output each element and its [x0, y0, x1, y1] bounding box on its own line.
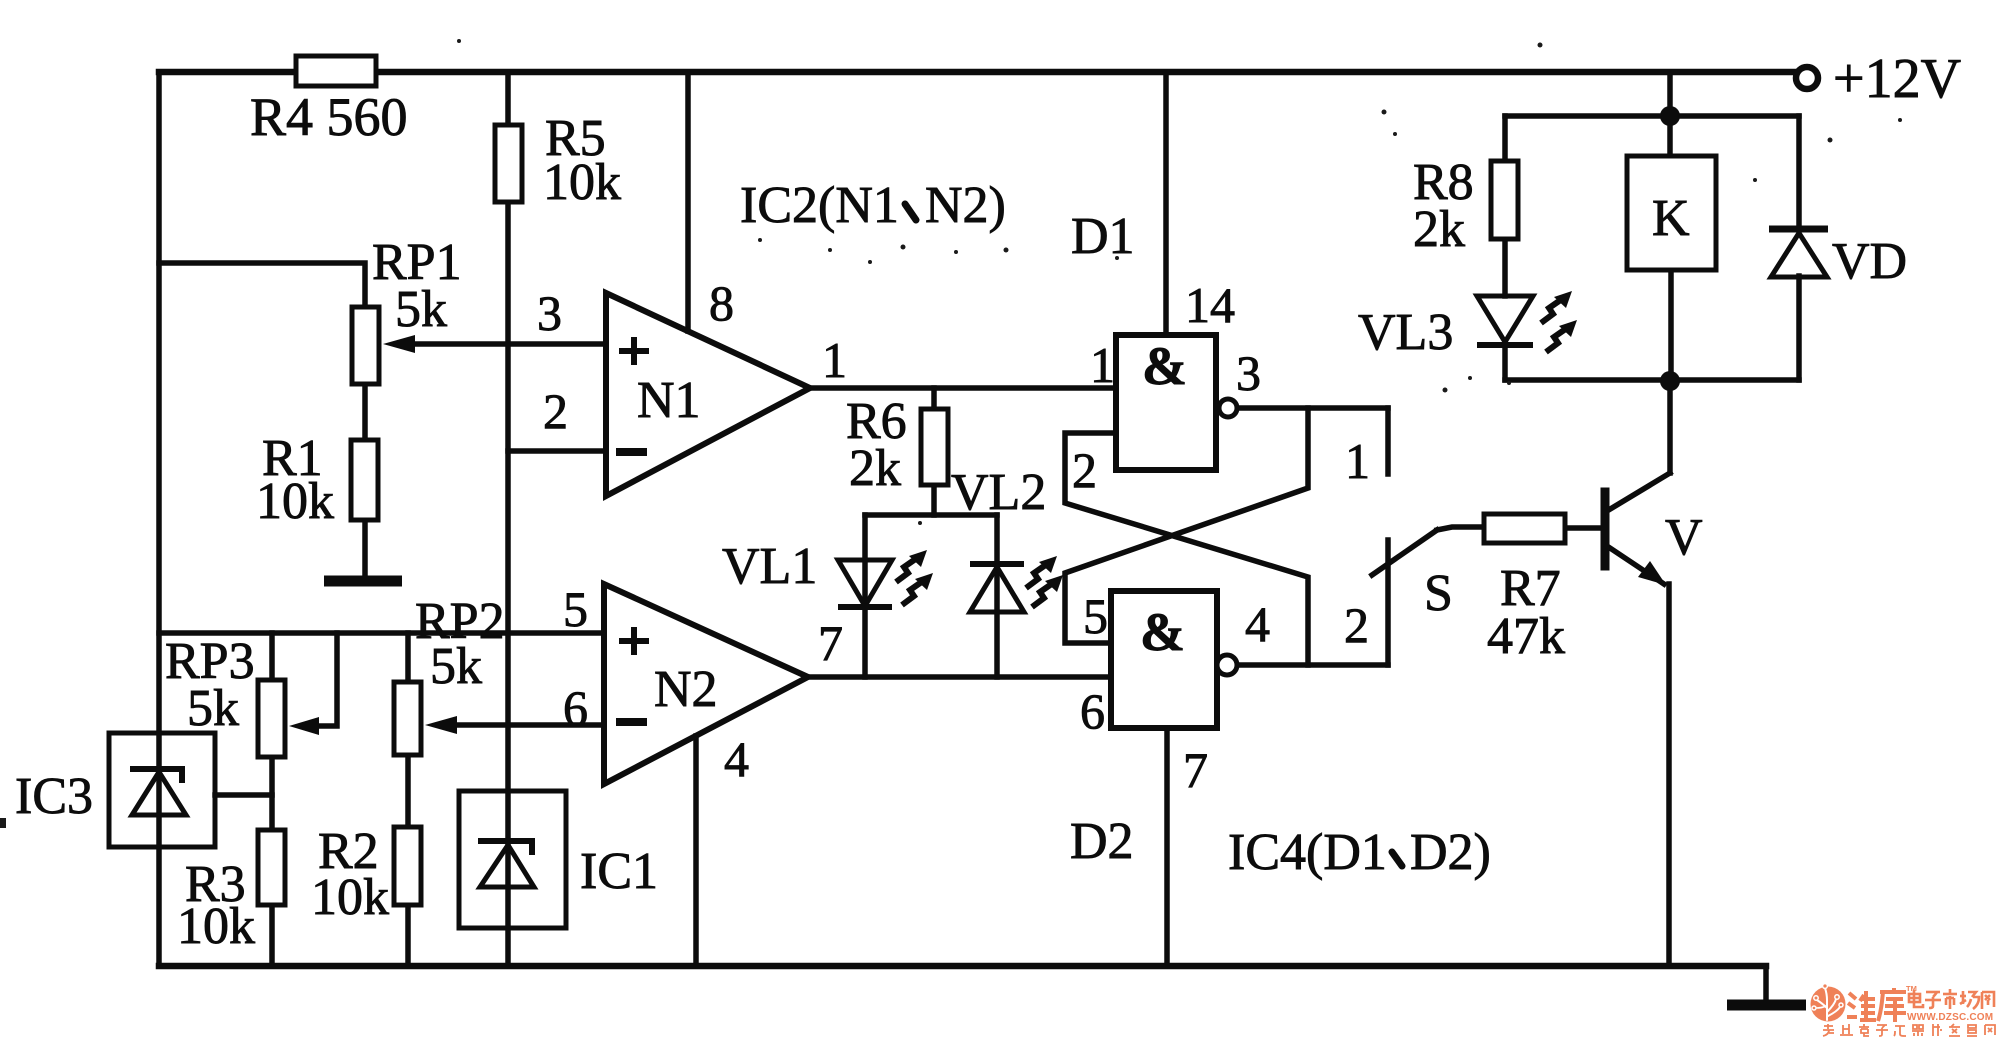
svg-text:47k: 47k — [1487, 608, 1565, 665]
svg-text:5k: 5k — [187, 680, 239, 737]
svg-text:2k: 2k — [849, 440, 901, 497]
svg-text:1: 1 — [822, 332, 847, 388]
svg-text:N2: N2 — [654, 661, 718, 718]
svg-text:IC3: IC3 — [15, 768, 93, 825]
svg-text:4: 4 — [724, 731, 749, 787]
svg-text:&: & — [1140, 602, 1185, 662]
svg-text:2k: 2k — [1413, 201, 1465, 258]
svg-text:2: 2 — [543, 383, 568, 439]
svg-text:D2: D2 — [1070, 813, 1134, 870]
svg-text:3: 3 — [1236, 345, 1261, 401]
svg-text:VL1: VL1 — [722, 538, 817, 595]
svg-text:5k: 5k — [395, 281, 447, 338]
svg-text:&: & — [1142, 336, 1187, 396]
svg-text:N2): N2) — [925, 177, 1006, 234]
svg-text:VL2: VL2 — [951, 464, 1046, 521]
svg-text:5: 5 — [1083, 588, 1108, 644]
svg-text:7: 7 — [818, 615, 843, 671]
svg-text:VD: VD — [1832, 233, 1907, 290]
svg-text:IC4(D1: IC4(D1 — [1228, 824, 1387, 881]
svg-text:4: 4 — [1245, 596, 1270, 652]
svg-text:5k: 5k — [430, 638, 482, 695]
svg-text:10k: 10k — [177, 898, 255, 955]
svg-text:IC2(N1: IC2(N1 — [740, 177, 899, 234]
svg-text:D2): D2) — [1410, 824, 1491, 881]
svg-text:2: 2 — [1344, 597, 1369, 653]
svg-text:R4 560: R4 560 — [250, 87, 408, 147]
svg-text:D1: D1 — [1071, 208, 1135, 265]
svg-text:10k: 10k — [256, 473, 334, 530]
svg-text:+12V: +12V — [1833, 48, 1961, 110]
svg-text:6: 6 — [563, 680, 588, 736]
svg-text:1: 1 — [1090, 337, 1115, 393]
svg-text:N1: N1 — [637, 372, 701, 429]
svg-text:10k: 10k — [543, 154, 621, 211]
svg-text:7: 7 — [1183, 742, 1208, 798]
svg-text:14: 14 — [1185, 277, 1235, 333]
svg-text:3: 3 — [537, 285, 562, 341]
svg-text:1: 1 — [1345, 433, 1370, 489]
svg-text:6: 6 — [1080, 683, 1105, 739]
svg-text:10k: 10k — [311, 869, 389, 926]
svg-text:5: 5 — [563, 581, 588, 637]
svg-text:S: S — [1424, 565, 1453, 622]
svg-text:TM: TM — [1906, 984, 1917, 993]
svg-text:IC1: IC1 — [580, 843, 658, 900]
svg-text:V: V — [1665, 509, 1703, 566]
svg-text:8: 8 — [709, 275, 734, 331]
svg-text:2: 2 — [1072, 442, 1097, 498]
svg-text:VL3: VL3 — [1358, 304, 1453, 361]
svg-text:WWW.DZSC.COM: WWW.DZSC.COM — [1907, 1012, 1993, 1023]
svg-text:K: K — [1652, 190, 1690, 247]
